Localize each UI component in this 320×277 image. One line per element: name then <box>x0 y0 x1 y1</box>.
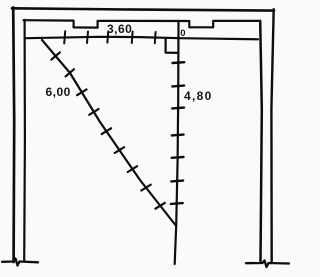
vertical tape measure line (4,80 span) <box>175 21 179 264</box>
wall right inner line <box>260 21 262 262</box>
svg-text:4,80: 4,80 <box>184 89 213 103</box>
tick marks on diagonal tape <box>51 52 164 208</box>
wall top outer line <box>12 8 274 10</box>
svg-text:3,60: 3,60 <box>107 22 132 36</box>
wall top inner line with two notches <box>24 20 261 27</box>
tick marks on horizontal tape <box>64 31 155 43</box>
wall left inner line <box>23 20 26 261</box>
diagonal tape measure line (6,00 span) <box>42 40 176 226</box>
svg-text:6,00: 6,00 <box>46 85 71 99</box>
wall break line bottom-right with zigzag <box>246 261 289 268</box>
wall break line bottom-left with zigzag <box>2 259 38 266</box>
wall left outer line <box>13 8 14 263</box>
svg-text:0: 0 <box>180 28 185 39</box>
zero-point vertical stub and pier rectangle below tape <box>166 39 178 53</box>
tick marks on vertical tape <box>171 62 184 204</box>
horizontal tape measure line (3,60 span) <box>26 37 258 40</box>
wall right outer line <box>271 9 273 263</box>
